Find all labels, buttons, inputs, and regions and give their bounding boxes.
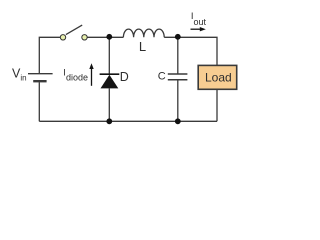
svg-text:C: C <box>158 71 166 83</box>
svg-text:D: D <box>120 70 129 84</box>
svg-text:L: L <box>139 39 146 54</box>
svg-text:Load: Load <box>205 71 232 85</box>
